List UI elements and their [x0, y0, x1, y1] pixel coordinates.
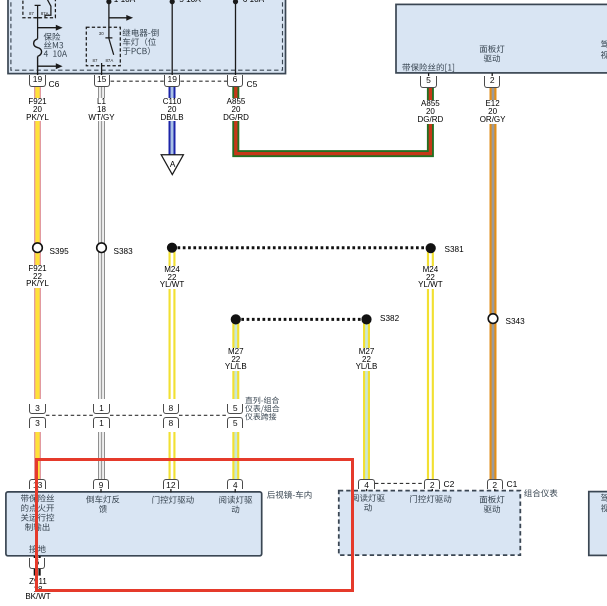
label: cluster pin2 门控灯驱动 — [410, 495, 451, 503]
pin 13 (mirror) — [29, 479, 45, 489]
label: connector C5 — [247, 80, 258, 88]
wire L1 18 WT/GY — [98, 87, 105, 480]
label: bottom right partial text — [601, 494, 607, 512]
pin 9 (mirror) — [93, 479, 109, 489]
label: wire M27 22 YL/LB (left) — [214, 348, 258, 371]
wire M27 22 YL/LB (right) — [363, 319, 370, 479]
pin 2 (cluster C1) — [487, 479, 503, 489]
wire stub: pin 4 cluster — [366, 488, 368, 491]
wire E12 20 OR/GY — [490, 88, 497, 480]
pin 8 (inline, top) — [163, 404, 179, 414]
pin 5 (inline, top) — [227, 404, 243, 414]
label: wire A855 20 DG/RD (right) — [408, 100, 452, 123]
wire M24 22 YL/WT (left) — [169, 248, 176, 480]
label: wire M24 22 YL/WT (left) — [150, 266, 194, 289]
label: fuse 6 10A (partial) — [243, 0, 264, 4]
label: wire Z911 18 BK/WT — [16, 578, 60, 601]
pin 2 (cluster C2) — [424, 479, 440, 489]
label: relay K2 (继电器-倒车灯 位于PCB) — [123, 29, 159, 55]
label: wire E12 20 OR/GY — [471, 100, 515, 123]
node: fuse 1 terminal — [106, 0, 111, 4]
label: wire L1 18 WT/GY — [80, 98, 124, 121]
label: wire F921 20 PK/YL — [16, 98, 60, 121]
pin 5 (inline, bottom) — [227, 417, 243, 428]
node: fuse 5 terminal — [170, 0, 175, 4]
label: splice S381 — [445, 246, 464, 254]
wire stub: pin 9 — [100, 488, 102, 493]
pin 6 (connector C5) — [227, 75, 243, 87]
label: connector C6 — [49, 80, 60, 88]
label: cluster pin2C1 面板灯驱动 — [480, 495, 505, 512]
module: instrument cluster (dashed) — [339, 491, 521, 555]
label: junction block 带保险丝的[1] — [402, 63, 454, 72]
splice S383 — [97, 243, 107, 253]
label: mirror pin9 倒车灯反馈 — [86, 495, 119, 512]
label: fuse M3 (保险丝M3 4 10A) — [44, 33, 67, 57]
pin 3 (inline, top) — [29, 404, 45, 414]
wire stub: pin 2 C2 — [431, 488, 433, 491]
relay K1 (partial, top left) — [23, 0, 56, 39]
link: inline connector pins — [46, 414, 227, 416]
label: ground 接地 — [29, 545, 45, 553]
pin 5 (junction block) — [420, 76, 436, 88]
bus: splice S381 dotted link — [178, 246, 426, 249]
wire M27 22 YL/LB (left) — [232, 319, 239, 479]
label: mirror pin12 门控灯驱动 — [152, 496, 193, 504]
pin 1 (inline, bottom) — [93, 417, 109, 428]
wire stub: pin 2 junction block — [491, 73, 493, 77]
node: fuse 6 terminal — [233, 0, 238, 4]
label: connector C1 — [507, 480, 518, 488]
off-page connector A — [161, 155, 183, 175]
pin 1 (inline, top) — [93, 404, 109, 414]
label: cluster pin4 阅读灯驱动 — [352, 494, 385, 511]
wire stub: pin 5 junction block — [428, 73, 430, 77]
bus: splice S382 dotted link — [241, 318, 361, 321]
node: M27 splice (left) — [231, 314, 241, 324]
wire stub: ground pin 6 — [36, 556, 38, 559]
wire stub: pin 13 — [37, 488, 39, 493]
label: splice S382 — [380, 315, 399, 323]
label: wire F921 22 PK/YL — [16, 265, 60, 288]
link: connector pins 15-19-6 (C5) — [111, 80, 227, 82]
label: module 后视镜-车内 — [267, 491, 311, 499]
splice S395 — [33, 243, 43, 253]
label: inline connector 直列-组合仪表/组合仪表跨接 — [245, 397, 279, 421]
splice S381 — [426, 243, 436, 253]
wire stub: pin 2 C1 — [494, 488, 496, 491]
label: wire C110 20 DB/LB — [150, 98, 194, 121]
label: mirror pin4 阅读灯驱动 — [219, 496, 252, 513]
pin 2 (junction block) — [484, 76, 500, 88]
module: interior mirror (bottom left) — [6, 492, 262, 556]
label: wire M27 22 YL/LB (right) — [345, 348, 389, 371]
wire F921 20 PK/YL — [34, 87, 41, 480]
label: splice S383 — [114, 248, 133, 256]
wire stub: pin 4 mirror — [234, 488, 236, 493]
label: mirror pin13 带保险丝的点火开关运行控制输出 — [21, 494, 54, 531]
wire: fuse 1 to relay K2 — [108, 0, 110, 38]
module: junction block (top right) — [396, 4, 607, 73]
wire M24 22 YL/WT (right) — [427, 248, 434, 479]
arrow: relay K1 output feed — [38, 25, 63, 31]
node: M24 splice (left) — [167, 243, 177, 253]
pin 4 (mirror) — [227, 479, 243, 489]
pin 6 ground (mirror) — [29, 558, 45, 570]
pin 8 (inline, bottom) — [163, 417, 179, 428]
label: splice S343 — [506, 318, 525, 326]
label: module 组合仪表 — [524, 489, 557, 497]
relay K2 - backup lamp relay (on PCB) — [86, 27, 120, 76]
pin 19 (connector C5) — [164, 75, 180, 87]
wire A855 20 DG/RD — [236, 87, 431, 154]
pin 4 (cluster) — [358, 479, 374, 489]
highlight: red selection rectangle — [35, 458, 354, 592]
pin 12 (mirror) — [163, 479, 179, 489]
label: wire M24 22 YL/WT (right) — [408, 266, 452, 289]
arrow: relay K2 feed — [109, 15, 133, 21]
wire: fuse 5 to pin 19 — [171, 0, 173, 76]
pin 19 (connector C6) — [29, 75, 45, 87]
wire stub: pin 12 — [170, 488, 172, 493]
fuse M3 4 10A — [34, 39, 42, 76]
label: connector C2 — [444, 480, 455, 488]
label: splice S395 — [50, 248, 69, 256]
splice S343 — [488, 314, 498, 324]
splice S382 — [361, 314, 371, 324]
pin 3 (inline, bottom) — [29, 417, 45, 428]
module: fuse/relay block (top left) — [8, 0, 286, 74]
label: fuse 5 10A (partial) — [179, 0, 200, 4]
arrow: fuse M3 output — [38, 63, 63, 69]
label: panel lamps driver (面板灯驱动) — [480, 45, 505, 62]
pin 15 — [94, 75, 110, 87]
wire: fuse 6 to pin 6 — [235, 0, 237, 76]
gap: inline connector wire breaks — [0, 0, 607, 1]
wire Z911 18 BK/WT — [34, 556, 41, 576]
link: cluster pins 4-2 — [375, 482, 424, 484]
label: wire A855 20 DG/RD (left) — [214, 98, 258, 121]
module: partial box (bottom right) — [589, 492, 607, 556]
label: top right partial text — [601, 40, 607, 59]
label: fuse 1 10A (partial) — [114, 0, 135, 4]
wire C110 20 DB/LB — [169, 87, 176, 156]
